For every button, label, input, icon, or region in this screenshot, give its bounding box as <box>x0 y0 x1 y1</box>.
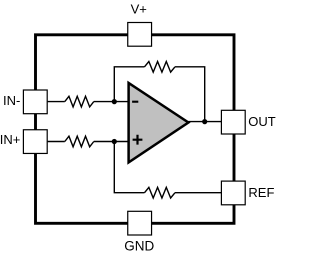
pin box IN- <box>23 90 47 114</box>
wire non-inverting node down and over to REF pin <box>114 142 221 193</box>
wire IN+ pin to non-inverting input <box>48 141 129 143</box>
op-amp inverting input marker (-) <box>132 101 138 103</box>
resistor (REF feedback, bottom) <box>145 187 176 198</box>
svg-text:V+: V+ <box>131 1 147 16</box>
pin box REF <box>221 181 245 205</box>
pin box OUT <box>221 110 245 134</box>
svg-text:REF: REF <box>248 185 274 200</box>
op-amp non-inverting input marker (+) <box>133 135 143 145</box>
svg-text:GND: GND <box>124 238 154 253</box>
wire feedback from output node up and over to inverting node <box>114 67 204 122</box>
svg-text:OUT: OUT <box>248 114 275 129</box>
junction dot (inverting node) <box>112 99 117 104</box>
wire op-amp output to OUT pin <box>188 121 221 123</box>
pin box V+ <box>128 23 152 47</box>
junction dot (non-inverting node) <box>112 139 117 144</box>
pin box GND <box>128 211 152 235</box>
svg-text:IN+: IN+ <box>0 132 20 147</box>
pin box IN+ <box>23 130 47 154</box>
resistor (feedback, top) <box>145 62 176 73</box>
svg-text:IN-: IN- <box>3 93 20 108</box>
package outline wire (V+ / IN- / IN+ / OUT / REF / GND supply loop) <box>36 35 235 224</box>
op-amp A1 <box>129 83 189 162</box>
resistor (IN- input) <box>65 96 94 107</box>
wire IN- pin to inverting input <box>48 101 129 103</box>
resistor (IN+ input) <box>65 136 94 147</box>
junction dot (output node) <box>202 119 207 124</box>
